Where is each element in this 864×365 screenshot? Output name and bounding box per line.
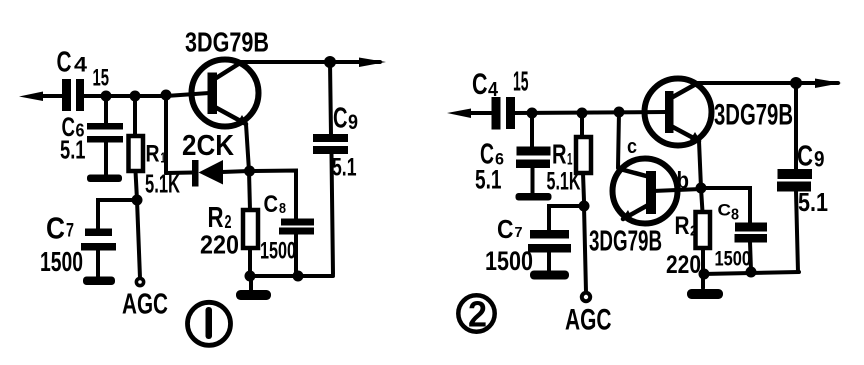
label C4 (2) (472, 68, 499, 101)
svg-text:R: R (552, 139, 567, 170)
label R1 (146, 141, 166, 168)
ground (C7-2) (530, 271, 569, 280)
label R2 (2) (675, 212, 698, 240)
svg-text:C: C (57, 47, 72, 79)
label C9 (2) (797, 141, 825, 173)
top wire (collector to output, circuit 2) (694, 81, 838, 85)
svg-text:AGC: AGC (122, 289, 168, 321)
capacitor C4 (2) (492, 97, 516, 130)
label C8 (264, 191, 287, 218)
wire node C down to diode (164, 96, 168, 173)
label R1 (2) (552, 139, 573, 170)
node A (C6 tap) (101, 91, 112, 102)
svg-text:C: C (797, 141, 813, 173)
svg-text:5.1K: 5.1K (547, 168, 581, 196)
svg-text:3DG79B: 3DG79B (185, 27, 269, 58)
svg-text:2: 2 (468, 294, 487, 335)
svg-text:3DG79B: 3DG79B (589, 226, 662, 258)
label C9 (333, 103, 358, 135)
label C7 (46, 211, 74, 246)
node E2 (699, 269, 710, 280)
capacitor C7 (81, 229, 116, 278)
input wire to Q1 base (2) (515, 112, 667, 113)
transistor Q1 3DG79B (circuit 1) (192, 60, 259, 127)
AGC terminal (2) (582, 293, 590, 301)
svg-text:C: C (46, 211, 65, 246)
transistor Q1 3DG79B (circuit 2) (645, 79, 712, 146)
label C7 (2) (497, 214, 523, 244)
svg-text:7: 7 (66, 221, 74, 242)
wire Q2 base to node b (653, 189, 701, 191)
capacitor C4 (62, 79, 84, 111)
node (R1-2 bottom junction) (579, 201, 590, 212)
wire input to base (84, 93, 209, 96)
resistor R1 (129, 96, 144, 200)
ground (main, circuit 2) (687, 274, 723, 299)
capacitor C9 (313, 62, 348, 274)
resistor R2 (2) (696, 188, 711, 274)
resistor R1 (2) (576, 113, 591, 201)
node F2 (746, 267, 757, 278)
transistor Q2 3DG79B (diode-connected) (613, 159, 678, 224)
ground (C7) (83, 277, 115, 286)
diode 2CK (192, 160, 249, 187)
svg-text:AGC: AGC (565, 304, 612, 337)
AGC terminal (136, 278, 143, 285)
wire junction to C7 (98, 200, 137, 229)
node (R1 bottom junction) (132, 195, 143, 206)
input arrow (left, circuit 1) (19, 92, 63, 102)
label C6 (2) (480, 139, 504, 171)
node C2 (614, 107, 625, 118)
ground (C6-2) (516, 193, 552, 201)
wire junction to C7 (2) (549, 206, 584, 231)
resistor R2 (243, 171, 258, 276)
svg-text:c: c (627, 136, 637, 158)
node G2 (C9-2 top tap) (790, 77, 802, 89)
capacitor C6 (2) (516, 113, 551, 194)
node C (base / diode tap) (161, 90, 172, 101)
svg-text:5.1: 5.1 (798, 187, 828, 217)
node A2 (527, 108, 538, 119)
svg-text:C: C (497, 214, 514, 244)
wire junction to AGC terminal (137, 200, 140, 278)
svg-text:2: 2 (690, 223, 698, 240)
svg-text:8: 8 (279, 200, 286, 217)
capacitor C7 (2) (528, 230, 571, 271)
capacitor C8 (2) (735, 223, 768, 272)
svg-text:8: 8 (731, 207, 739, 224)
svg-text:C: C (333, 103, 348, 135)
svg-text:9: 9 (348, 111, 358, 134)
svg-text:1500: 1500 (260, 238, 296, 265)
bottom wire (circuit 2) (703, 272, 799, 274)
node G (C9 top tap) (324, 56, 336, 68)
svg-text:R: R (675, 212, 690, 240)
label C6 (62, 112, 85, 142)
top wire (collector to output, circuit 1) (238, 60, 380, 64)
svg-text:220: 220 (200, 230, 239, 260)
output arrow (circuit 2) (815, 79, 842, 89)
label C4 (57, 47, 88, 79)
wire to diode cathode (166, 171, 193, 176)
capacitor C6 (87, 96, 123, 175)
svg-text:4: 4 (74, 54, 87, 77)
svg-text:2CK: 2CK (182, 130, 234, 162)
svg-text:4: 4 (488, 79, 499, 101)
wire node C2 to Q2 collector (618, 112, 619, 168)
wire Q1-2 emitter down to node b (699, 141, 701, 188)
capacitor C8 (279, 219, 314, 277)
wire emitter down (246, 124, 249, 171)
svg-text:9: 9 (814, 147, 825, 172)
svg-text:5.1: 5.1 (60, 135, 86, 165)
node E (245, 271, 256, 282)
svg-text:220: 220 (666, 251, 701, 279)
ground (main, circuit 1) (236, 276, 271, 300)
svg-text:b: b (677, 168, 690, 195)
node F (293, 271, 304, 282)
svg-text:15: 15 (93, 65, 110, 92)
svg-text:C: C (718, 201, 732, 220)
node D (emitter junction) (244, 166, 255, 177)
wire junction to AGC terminal (2) (584, 206, 586, 292)
svg-text:5.1: 5.1 (475, 165, 502, 195)
svg-text:1500: 1500 (485, 246, 533, 276)
svg-text:1: 1 (567, 150, 573, 169)
wire node b to C8 (2) (701, 188, 750, 223)
svg-text:1500: 1500 (40, 246, 83, 277)
figure number 2 (458, 294, 494, 335)
capacitor C9 (2) (777, 83, 812, 272)
input arrow (left, circuit 2) (447, 109, 492, 119)
bottom wire (R2/C8/C9 grounds) (250, 274, 333, 278)
svg-text:3DG79B: 3DG79B (714, 99, 793, 132)
svg-text:R: R (146, 141, 160, 168)
label R2 (208, 202, 232, 234)
svg-text:1500: 1500 (715, 248, 752, 271)
label C8 (2) (718, 201, 740, 224)
svg-text:C: C (264, 191, 279, 218)
figure number 1 (188, 302, 231, 345)
svg-text:5.1: 5.1 (332, 154, 357, 182)
node b (junction) (696, 183, 707, 194)
node B (R1 tap) (130, 91, 141, 102)
ground (C6) (87, 175, 122, 183)
svg-text:15: 15 (513, 66, 529, 97)
wire D to C8 (249, 171, 296, 220)
output arrow (circuit 1) (359, 58, 386, 68)
svg-text:C: C (472, 68, 488, 101)
svg-text:7: 7 (515, 224, 523, 241)
node B2 (577, 108, 588, 119)
